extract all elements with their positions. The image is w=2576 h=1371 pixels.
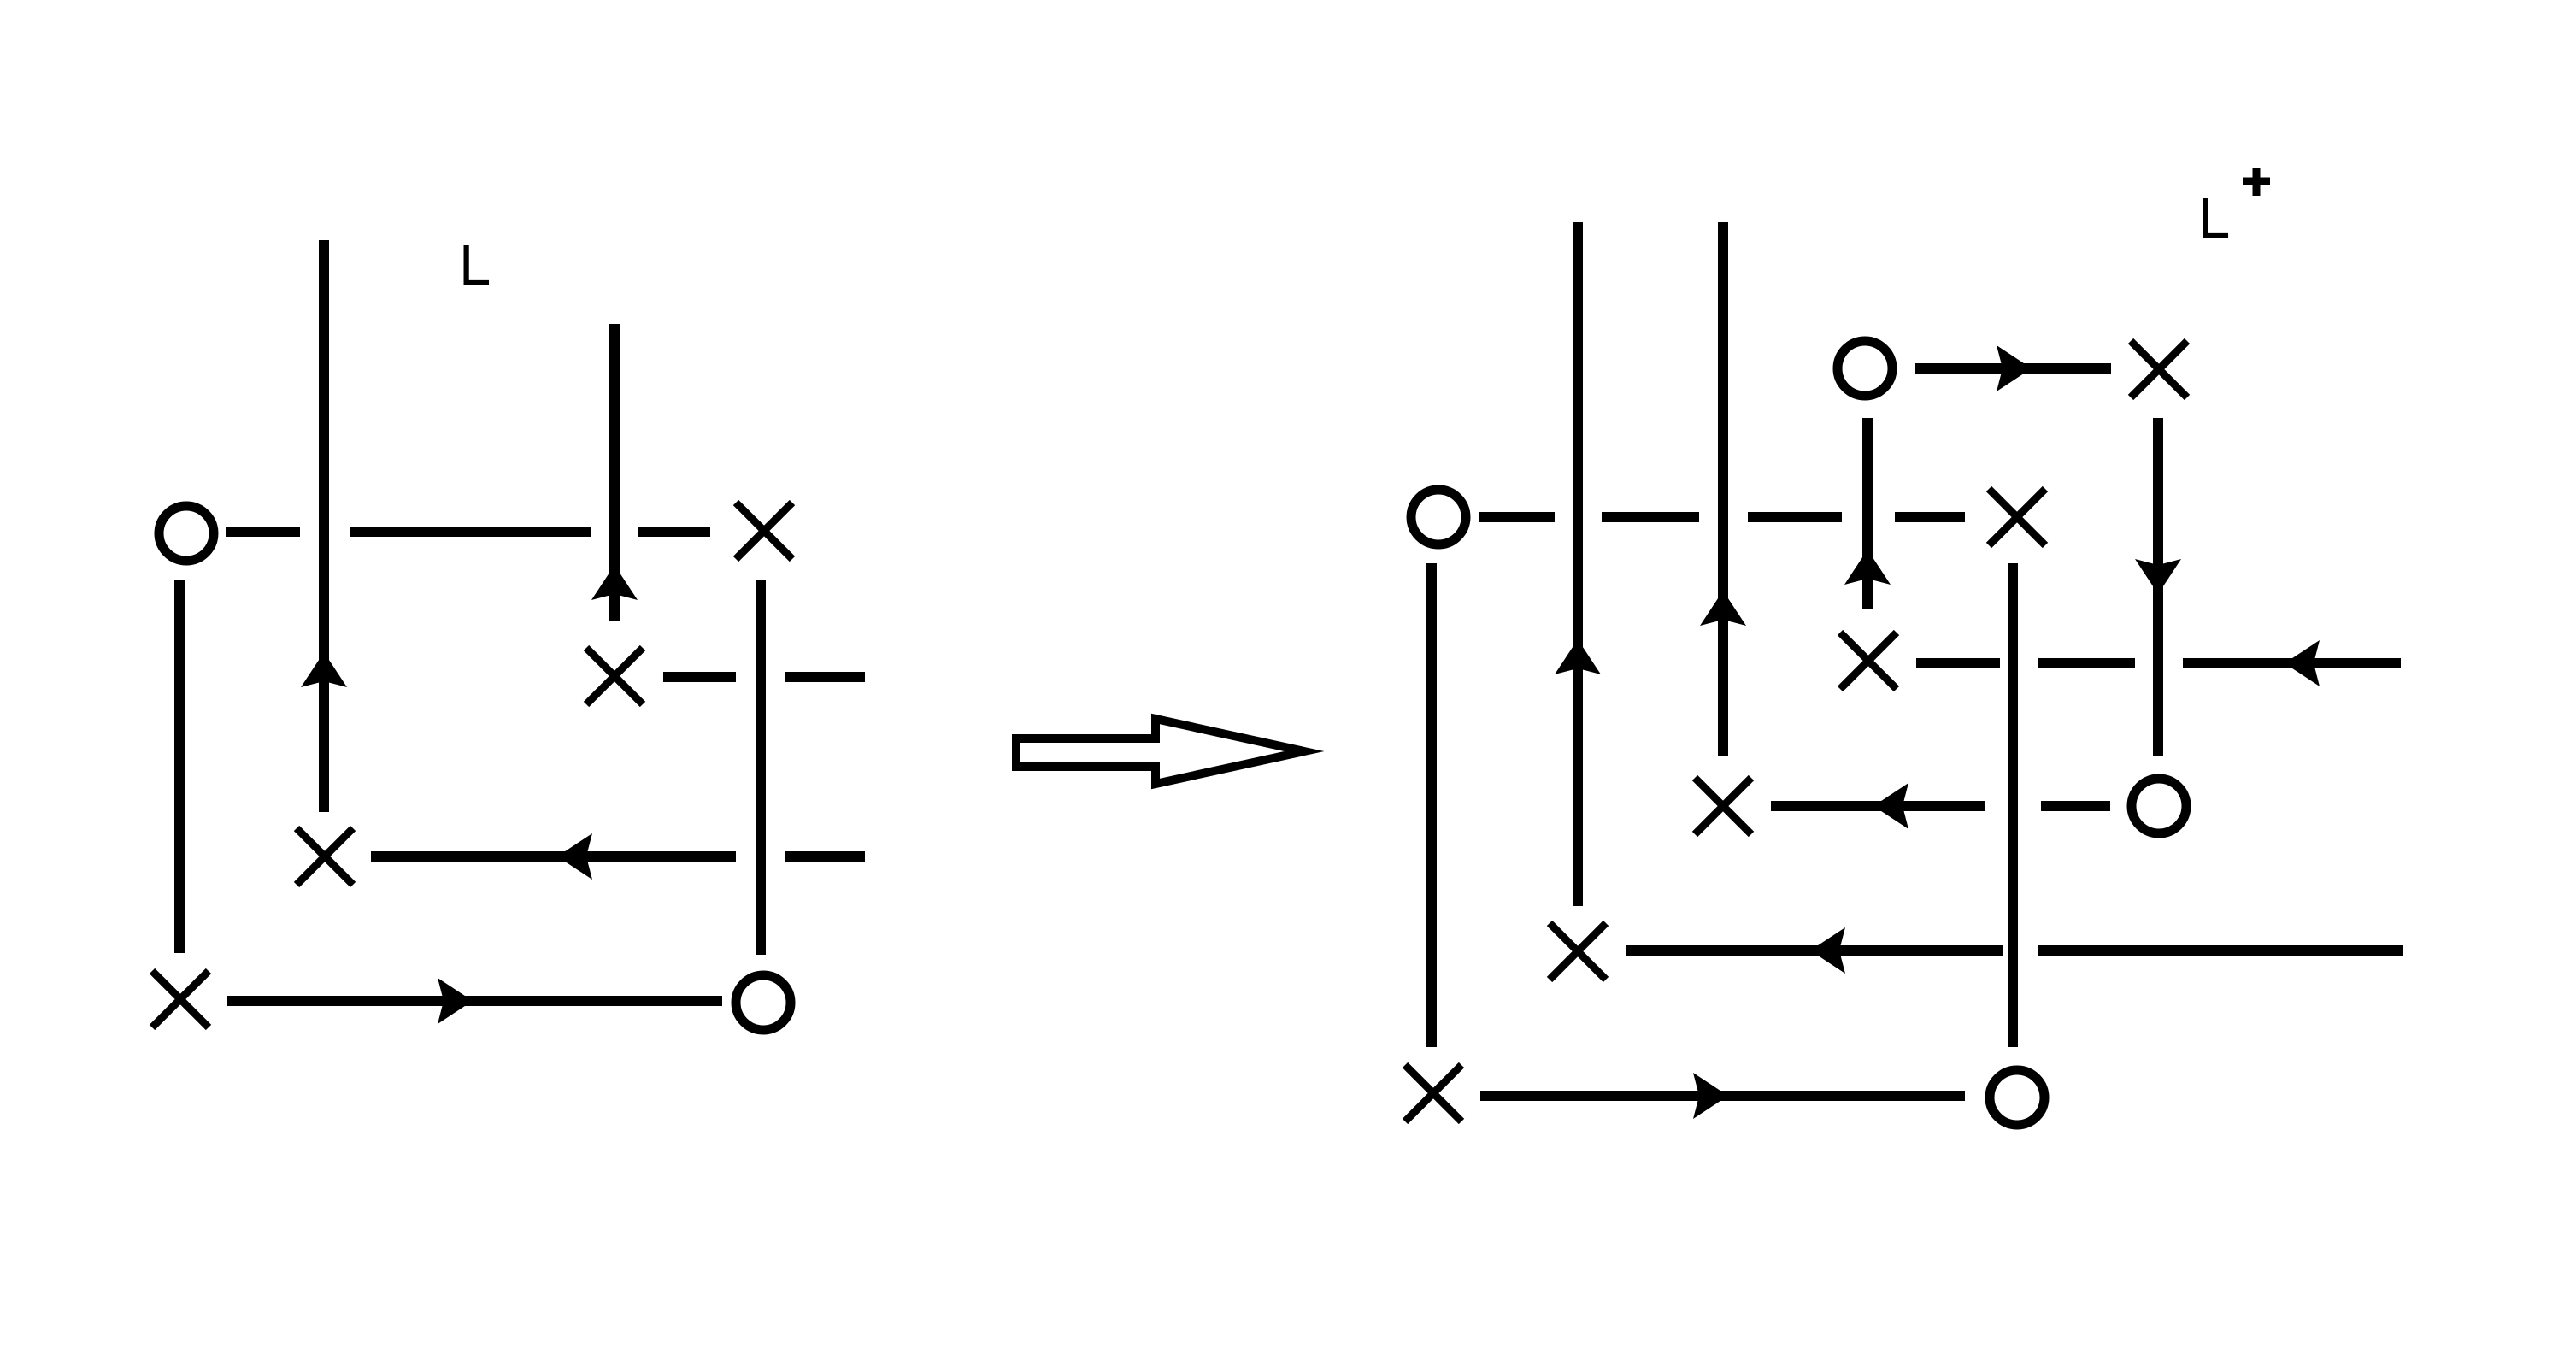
- node X_tr (top-right X): [2131, 341, 2187, 397]
- arrowhead up on O_t stem: [1844, 550, 1891, 585]
- implication outline arrow: [1016, 719, 1304, 784]
- node X4 (bottom-left X of L): [152, 971, 209, 1027]
- wire row1 segment Va to Vb crossing: [1602, 512, 1699, 522]
- wire Va tall vertical (free end): [1573, 222, 1583, 906]
- node X1 (row-3 X of L): [297, 828, 353, 885]
- arrowhead right on rowD: [1693, 1073, 1728, 1119]
- node O_b (bottom O): [1990, 1070, 2044, 1125]
- wire V0 vertical O1-X4: [174, 580, 185, 953]
- wire rowB segment V_m crossing to O_x: [2041, 801, 2110, 811]
- arrowhead left on rowA: [2285, 640, 2320, 686]
- wire rowA segment V_m to V_x crossing: [2038, 658, 2135, 668]
- wire row2 segment X2 to V3 crossing: [663, 672, 736, 682]
- arrowhead left on rowC: [1810, 927, 1845, 974]
- wire rowC segment X_a to V_m crossing: [1626, 945, 2003, 956]
- node X_a (X below Va): [1550, 923, 1606, 980]
- node O4 (bottom-right O of L): [736, 975, 791, 1030]
- node O_l (left O): [1411, 490, 1466, 544]
- node X_m (middle X on row1): [1989, 489, 2045, 545]
- arrowhead up on V2: [591, 565, 638, 600]
- node O1 (top-left O of L): [159, 506, 214, 561]
- wire V3 vertical X3-O4: [756, 580, 766, 955]
- svg-text:L: L: [2198, 186, 2230, 250]
- node X3 (top-right X of L): [736, 503, 792, 559]
- wire Vb tall vertical (free end): [1718, 222, 1728, 756]
- wire row3 segment X1 to V3 crossing: [371, 851, 736, 862]
- wire O_t stem down to X_bm: [1862, 418, 1873, 609]
- wire rowC free-end segment beyond V_m: [2038, 945, 2403, 956]
- wire rowB segment X_vb to V_m crossing: [1771, 801, 1985, 811]
- wire row1 segment V1 to V2 crossing: [350, 527, 591, 537]
- wire row1 segment stem crossing to X_m: [1895, 512, 1965, 522]
- arrowhead right on top row: [1997, 345, 2032, 391]
- node X_b (bottom-left X): [1405, 1065, 1461, 1121]
- wire rowA segment X_bm to V_m crossing: [1916, 658, 2000, 668]
- wire rowA free-end segment with arrow: [2183, 658, 2401, 668]
- svg-text:L: L: [459, 233, 491, 297]
- wire row1 segment Vb to stem crossing: [1748, 512, 1842, 522]
- arrowhead right on row4: [438, 978, 473, 1024]
- wire row1 segment O1 to V1 crossing: [226, 527, 300, 537]
- node X_vb (X below Vb): [1695, 778, 1751, 834]
- arrowhead up on Vb: [1700, 591, 1746, 626]
- wire row3 free-end segment beyond V3: [785, 851, 865, 862]
- arrowhead down on V_x: [2135, 559, 2181, 594]
- wire V_L left vertical O_l to X_b: [1426, 563, 1437, 1047]
- node X_bm (X below O_t stem): [1840, 633, 1897, 689]
- wire rowD X_b to O_b: [1480, 1091, 1965, 1101]
- wire row2 free-end segment beyond V3: [785, 672, 865, 682]
- arrowhead up on Va: [1555, 639, 1601, 674]
- node O_x (O below V_x): [2132, 779, 2186, 833]
- wire row1 segment V2 crossing to X3: [638, 527, 710, 537]
- wire row1 segment O_l to Va crossing: [1479, 512, 1555, 522]
- wire V_m vertical X_m down to O_b: [2008, 563, 2018, 1047]
- wire V_x from X_tr down to O_x: [2153, 418, 2163, 756]
- wire V2 vertical from X2 up (free end): [609, 324, 620, 621]
- arrowhead left on row3: [557, 833, 592, 880]
- arrowhead up on V1: [301, 652, 347, 687]
- wire V1 vertical from X1 up (free end): [319, 240, 329, 812]
- node X2 (middle X of L): [586, 648, 643, 704]
- arrowhead left on rowB: [1873, 783, 1908, 829]
- node O_t (top O): [1838, 341, 1892, 396]
- superscript plus of L+: [2243, 168, 2270, 196]
- wire row4 X4 to O4: [227, 996, 722, 1006]
- wire top row O_t to X_tr: [1915, 363, 2111, 374]
